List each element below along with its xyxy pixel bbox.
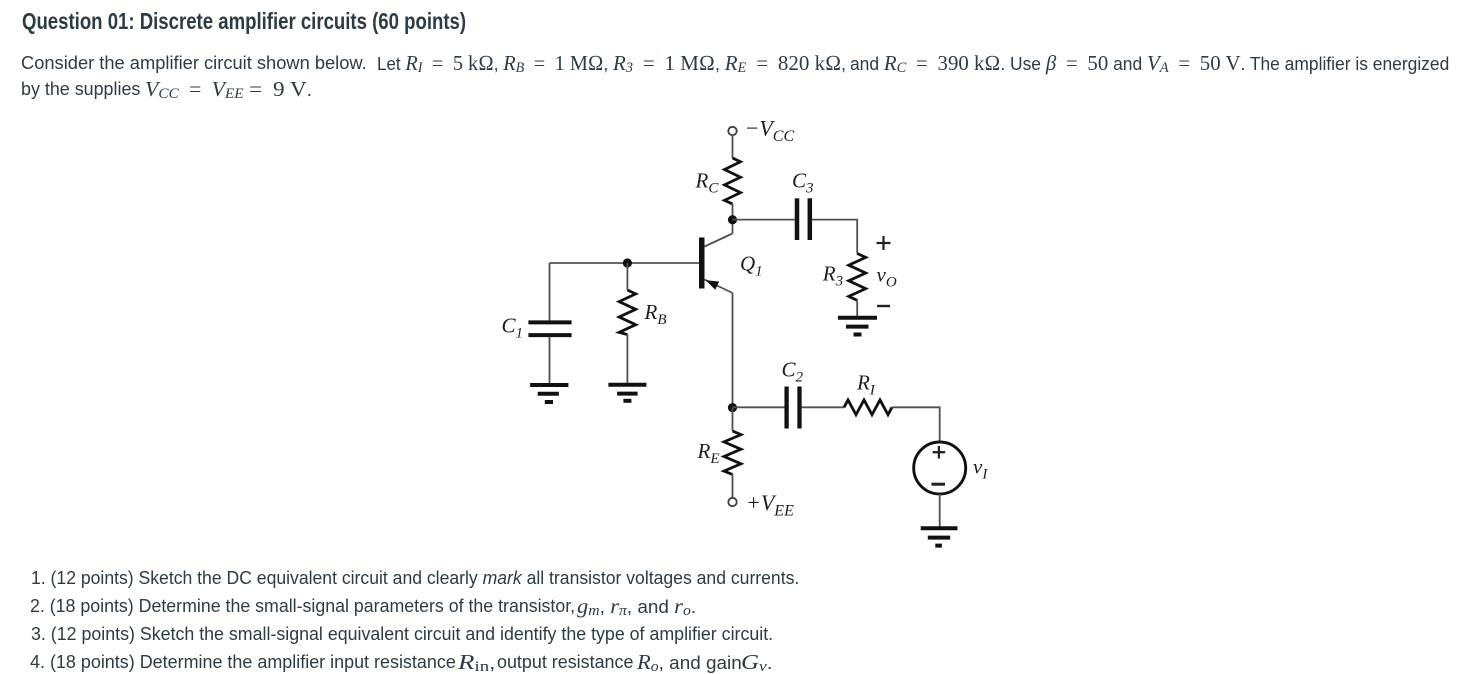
node collector junction <box>728 215 737 224</box>
wire emitter down to node <box>732 293 734 408</box>
node emitter junction <box>728 403 737 412</box>
minus sign in source <box>932 483 946 486</box>
heading <box>22 7 572 35</box>
ground at C1 <box>530 383 568 387</box>
svg-text:RB: RB <box>644 300 667 328</box>
wire base to C1 <box>549 263 551 321</box>
svg-text:R3: R3 <box>822 262 843 290</box>
capacitor C1 <box>528 320 571 324</box>
svg-text:vI: vI <box>973 455 988 483</box>
wire C1 to ground <box>549 337 551 383</box>
paragraph line 2 chunk F2 <box>244 75 307 104</box>
circuit schematic svg <box>480 110 1010 560</box>
source vI circle <box>914 442 966 494</box>
wire source to ground <box>939 494 941 527</box>
terminal -VCC <box>728 127 736 135</box>
ground at R3 <box>838 316 877 320</box>
svg-text:−VCC: −VCC <box>745 116 795 146</box>
capacitor C3 <box>795 198 800 240</box>
svg-text:C1: C1 <box>502 314 524 342</box>
list item 3 <box>31 620 781 648</box>
node base junction <box>623 258 632 267</box>
wire base <box>550 262 700 264</box>
wire RI to source <box>892 407 940 442</box>
list item 1 <box>31 564 817 592</box>
wire node to C2 <box>733 406 786 408</box>
resistor R3 <box>849 254 866 301</box>
wire RC to collector node <box>732 204 734 234</box>
svg-text:+VEE: +VEE <box>746 490 794 520</box>
transistor Q1 base bar <box>699 238 705 289</box>
wire node to C3 <box>733 219 797 221</box>
plus sign in source <box>933 451 946 453</box>
svg-text:vO: vO <box>877 263 897 291</box>
transistor Q1 collector lead <box>705 234 733 247</box>
terminal +VEE <box>728 498 736 506</box>
resistor RC <box>725 158 741 204</box>
paragraph line 1 chunk C <box>613 49 852 80</box>
resistor RE <box>724 431 741 475</box>
capacitor C2 <box>784 387 788 429</box>
list item 2 chunk H <box>577 592 690 623</box>
svg-text:C2: C2 <box>782 358 804 386</box>
wire C3 to R3 <box>812 220 857 254</box>
wire node to RB <box>626 263 628 290</box>
paragraph line 1 chunk B <box>377 49 622 80</box>
ground at RB <box>608 383 646 387</box>
transistor Q1 emitter lead <box>705 280 733 294</box>
list item 4 chunk I <box>30 648 457 674</box>
list item 4 chunk J3 <box>637 648 737 674</box>
plus sign output <box>877 242 891 244</box>
paragraph line 1 chunk A <box>21 49 361 77</box>
list item 4 chunk J1 <box>458 648 488 674</box>
paragraph line 2 chunk E <box>21 75 141 103</box>
wire RB to ground <box>626 335 628 384</box>
ground at source <box>921 526 958 530</box>
list item 4 chunk K <box>741 648 768 674</box>
transistor Q1 emitter arrow (PNP) <box>706 280 720 290</box>
svg-text:RC: RC <box>695 169 720 197</box>
svg-text:RE: RE <box>697 439 720 467</box>
resistor RI <box>844 400 892 415</box>
list item 4 chunk J2 <box>497 648 634 674</box>
wire node to RE <box>732 408 734 431</box>
paragraph line 2 chunk F1 <box>145 75 242 106</box>
wire VCC to RC <box>732 135 734 158</box>
paragraph line 1 chunk D <box>850 49 1469 80</box>
list item 2 chunk G <box>30 592 582 620</box>
wire RE to terminal <box>732 475 734 498</box>
svg-text:RI: RI <box>856 371 876 399</box>
wire C2 to RI <box>802 406 844 408</box>
minus sign output <box>877 305 890 307</box>
resistor RB <box>619 290 636 335</box>
svg-text:Q1: Q1 <box>740 252 763 280</box>
svg-text:C3: C3 <box>792 169 814 197</box>
wire R3 to ground <box>856 300 858 317</box>
